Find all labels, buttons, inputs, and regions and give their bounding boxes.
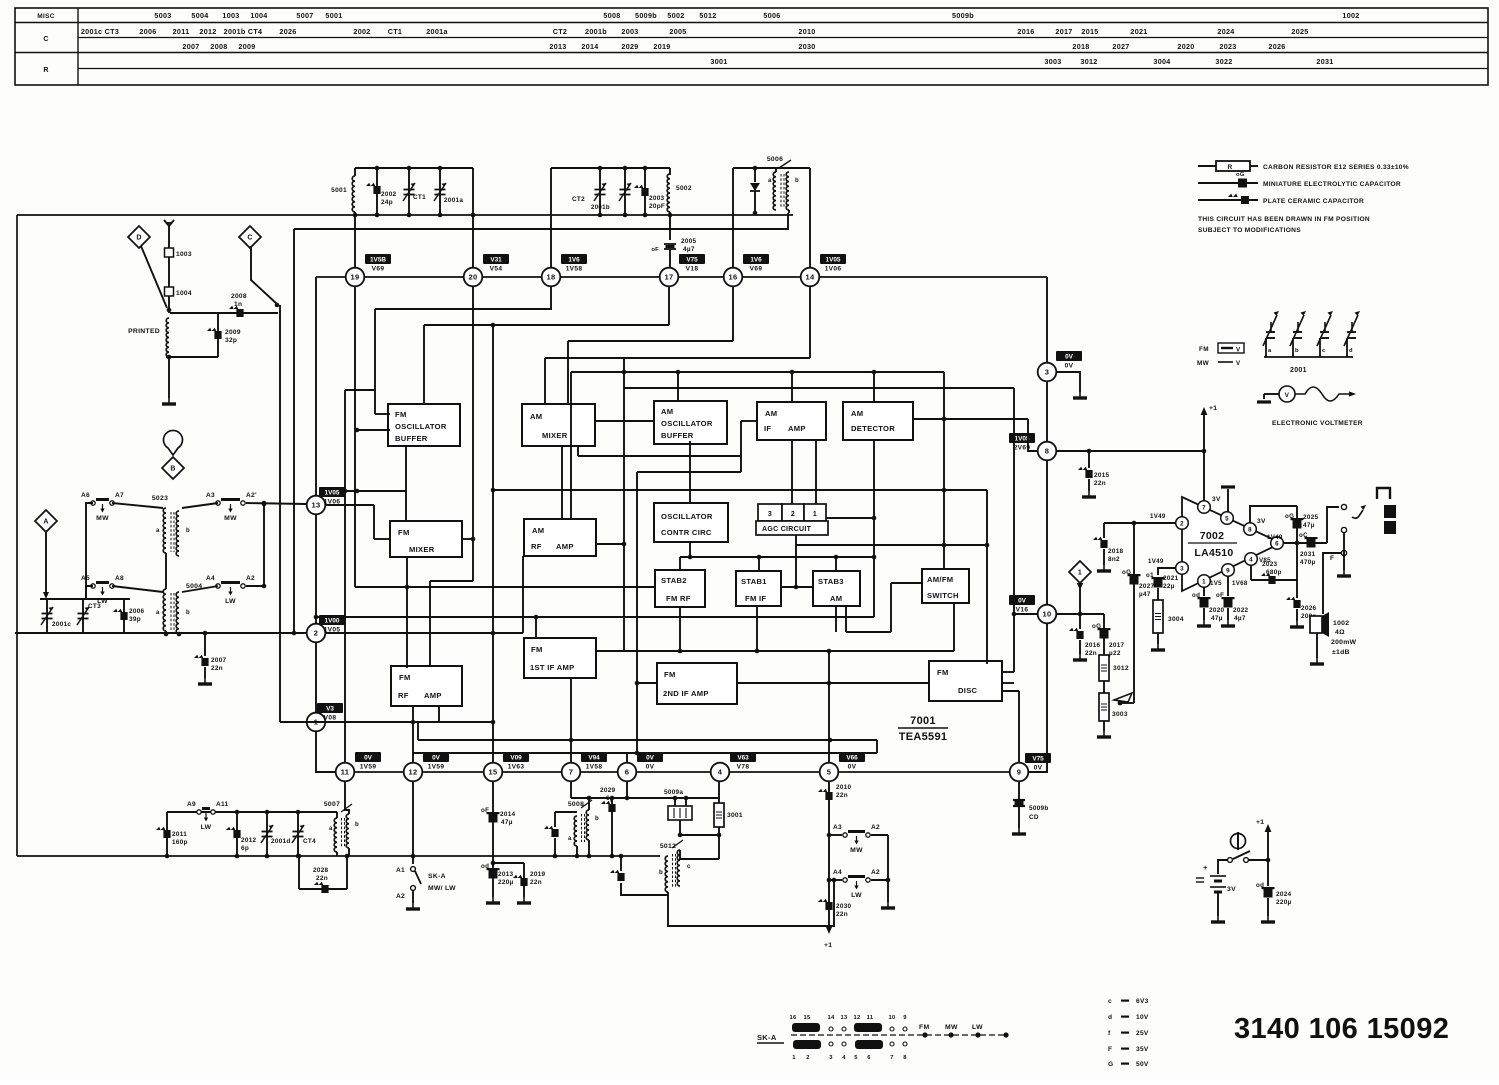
svg-text:MISC: MISC bbox=[37, 13, 54, 20]
svg-text:A3: A3 bbox=[833, 824, 842, 831]
wire bbox=[679, 834, 719, 836]
label 2012 value bbox=[241, 845, 249, 852]
capacitor 2011 bbox=[156, 827, 171, 838]
svg-text:16: 16 bbox=[729, 273, 738, 282]
electronic voltmeter symbol bbox=[1257, 386, 1356, 402]
svg-text:C: C bbox=[43, 36, 48, 43]
svg-text:3: 3 bbox=[1045, 368, 1049, 377]
wire bbox=[677, 372, 679, 401]
svg-text:2016: 2016 bbox=[1085, 642, 1101, 649]
switch A3-A2 MW bbox=[206, 492, 257, 522]
svg-text:2021: 2021 bbox=[1163, 575, 1179, 582]
junction bbox=[942, 543, 947, 548]
ceramic filter 5009b bbox=[1013, 800, 1049, 821]
svg-text:D: D bbox=[136, 235, 141, 242]
junction bbox=[262, 501, 267, 506]
junction bbox=[794, 585, 799, 590]
junction bbox=[598, 213, 603, 218]
wire top pin bus bbox=[316, 276, 1047, 278]
svg-text:2013: 2013 bbox=[498, 871, 514, 878]
svg-text:160p: 160p bbox=[172, 839, 188, 846]
junction bbox=[668, 213, 673, 218]
svg-text:2001: 2001 bbox=[1290, 367, 1307, 374]
wire 3012 to 3003 bbox=[1103, 681, 1105, 693]
svg-text:1ST IF AMP: 1ST IF AMP bbox=[530, 663, 575, 672]
svg-text:ELECTRONIC VOLTMETER: ELECTRONIC VOLTMETER bbox=[1272, 420, 1363, 427]
pin 14 bbox=[801, 268, 820, 287]
junction bbox=[491, 323, 496, 328]
wire bbox=[578, 455, 741, 457]
wire A2 to pin13 bbox=[246, 503, 306, 504]
label 3V pin8 bbox=[1257, 518, 1266, 525]
svg-text:2029: 2029 bbox=[621, 42, 638, 51]
svg-text:2023: 2023 bbox=[1219, 42, 1236, 51]
svg-text:R: R bbox=[43, 67, 48, 74]
svg-text:MW: MW bbox=[96, 515, 109, 522]
svg-text:+1: +1 bbox=[824, 942, 832, 949]
ground bbox=[1261, 916, 1275, 922]
svg-text:2025: 2025 bbox=[1291, 27, 1308, 36]
junction bbox=[610, 854, 615, 859]
capacitor 5012 left bbox=[610, 870, 625, 881]
junction bbox=[345, 854, 350, 859]
junction bbox=[755, 649, 760, 654]
svg-text:2011: 2011 bbox=[173, 27, 190, 36]
svg-text:17: 17 bbox=[665, 273, 674, 282]
block AGC circuit bbox=[756, 504, 828, 535]
capacitor 2022 bbox=[1216, 592, 1235, 608]
tuning gang 2001 bbox=[1263, 311, 1360, 374]
ground bbox=[1082, 491, 1096, 497]
junction bbox=[471, 213, 476, 218]
junction bbox=[235, 810, 240, 815]
svg-text:2019: 2019 bbox=[530, 871, 546, 878]
svg-text:2025: 2025 bbox=[1303, 514, 1319, 521]
junction bbox=[610, 796, 615, 801]
wire 2017 leg bbox=[1103, 614, 1105, 655]
junction bbox=[942, 488, 947, 493]
svg-text:20: 20 bbox=[469, 273, 478, 282]
junction bbox=[684, 796, 689, 801]
wire bbox=[1013, 388, 1015, 672]
label 2011 bbox=[172, 831, 187, 838]
label 2017 value bbox=[1109, 650, 1121, 657]
svg-text:0V: 0V bbox=[848, 764, 857, 771]
wire 5009a bottom bbox=[679, 820, 681, 835]
svg-text:oG: oG bbox=[1122, 569, 1131, 576]
svg-text:1V59: 1V59 bbox=[428, 764, 445, 771]
legend text electrolytic bbox=[1263, 181, 1401, 188]
svg-text:13: 13 bbox=[840, 1015, 848, 1021]
svg-text:CT1: CT1 bbox=[413, 194, 426, 201]
wire bbox=[835, 606, 837, 632]
junction bbox=[265, 810, 270, 815]
wire 2018 gnd bbox=[1103, 549, 1105, 565]
junction bbox=[553, 854, 558, 859]
svg-text:RF: RF bbox=[398, 691, 409, 700]
block oscillator control circuit bbox=[654, 503, 728, 542]
wire 2019 branch bbox=[493, 862, 524, 864]
svg-text:14: 14 bbox=[806, 273, 815, 282]
label 2013 bbox=[498, 871, 514, 878]
wire column x280 node C net bbox=[279, 305, 281, 722]
label pin12 voltages bbox=[423, 752, 449, 771]
svg-text:od: od bbox=[1192, 592, 1200, 599]
capacitor small ceramic bbox=[544, 826, 559, 837]
junction bbox=[262, 584, 267, 589]
label pin15 voltages bbox=[503, 752, 529, 771]
svg-text:SUBJECT TO MODIFICATIONS: SUBJECT TO MODIFICATIONS bbox=[1198, 227, 1301, 234]
svg-text:A8: A8 bbox=[115, 575, 124, 582]
wire pin5 down bbox=[828, 781, 830, 925]
svg-text:2: 2 bbox=[1180, 520, 1184, 527]
wire bbox=[876, 740, 878, 753]
svg-text:2008: 2008 bbox=[231, 293, 247, 300]
svg-text:1002: 1002 bbox=[1342, 11, 1359, 20]
wire feedback bottom bbox=[1251, 579, 1297, 581]
junction bbox=[827, 681, 832, 686]
wire CT4 leg bbox=[297, 812, 299, 856]
label 2001d bbox=[271, 838, 291, 845]
wire 2015 gnd bbox=[1088, 479, 1090, 491]
switch A5-A8 LW bbox=[81, 575, 124, 605]
wire 5012 c to 3001 bbox=[680, 850, 719, 859]
wire CT2 leg bbox=[599, 168, 601, 215]
svg-text:AMP: AMP bbox=[788, 424, 806, 433]
junction bbox=[407, 213, 412, 218]
supply arrow +1 battery bbox=[1256, 819, 1271, 860]
svg-text:AGC CIRCUIT: AGC CIRCUIT bbox=[762, 526, 812, 533]
svg-text:2005: 2005 bbox=[681, 238, 697, 245]
svg-text:15: 15 bbox=[489, 768, 498, 777]
junction bbox=[587, 796, 592, 801]
wire 2020 gnd bbox=[1203, 608, 1205, 620]
svg-text:V3: V3 bbox=[326, 706, 334, 713]
junction bbox=[411, 720, 416, 725]
svg-text:AM: AM bbox=[851, 409, 863, 418]
label pin13 voltages bbox=[319, 487, 345, 506]
junction bbox=[688, 555, 693, 560]
label 2012 bbox=[241, 837, 257, 844]
capacitor CT1 (trimmer) bbox=[403, 183, 415, 201]
wire 2001d leg bbox=[266, 812, 268, 856]
svg-text:A9: A9 bbox=[187, 801, 196, 808]
label 2023 bbox=[1262, 561, 1278, 568]
capacitor CT3 (trimmer) bbox=[77, 607, 89, 625]
pin 6 of U7002 bbox=[1271, 537, 1284, 550]
label pin11 voltages bbox=[355, 752, 381, 771]
label 2001a bbox=[444, 197, 463, 204]
wire to pin14 bbox=[809, 168, 811, 268]
svg-text:STAB1: STAB1 bbox=[741, 577, 767, 586]
svg-text:A: A bbox=[43, 519, 48, 526]
svg-text:5009a: 5009a bbox=[664, 789, 683, 796]
wire pin8 supply bbox=[1056, 450, 1203, 452]
svg-text:a: a bbox=[768, 178, 772, 184]
block FM disc bbox=[929, 661, 1002, 701]
wire bbox=[344, 390, 346, 763]
pin 1 of U7002 bbox=[1198, 575, 1211, 588]
svg-text:V66: V66 bbox=[846, 755, 858, 762]
junction bbox=[676, 370, 681, 375]
pin 17 bbox=[660, 268, 679, 287]
svg-text:47µ: 47µ bbox=[1211, 615, 1223, 622]
svg-text:A4: A4 bbox=[206, 575, 215, 582]
wire bbox=[740, 421, 742, 472]
svg-text:1V6: 1V6 bbox=[568, 257, 580, 264]
junction bbox=[262, 502, 267, 507]
ground bbox=[1197, 620, 1211, 626]
resistor 3001 bbox=[714, 803, 724, 827]
wire left border bbox=[16, 215, 18, 856]
junction bbox=[622, 542, 627, 547]
svg-text:b: b bbox=[1295, 348, 1299, 354]
svg-text:7: 7 bbox=[569, 768, 573, 777]
capacitor 2025 bbox=[1285, 513, 1304, 529]
label 2018 bbox=[1108, 548, 1124, 555]
svg-text:22n: 22n bbox=[530, 879, 542, 886]
wire 5002 to 2005 bbox=[669, 212, 671, 240]
capacitor CT4 (trimmer) bbox=[292, 825, 304, 843]
wire FM disc right bbox=[1002, 682, 1014, 684]
block AM mixer bbox=[522, 404, 595, 446]
ground bbox=[198, 678, 212, 684]
capacitor 2005 bbox=[651, 244, 676, 253]
svg-text:FM: FM bbox=[1199, 346, 1209, 353]
wire bbox=[636, 472, 638, 753]
svg-text:V: V bbox=[1236, 347, 1241, 354]
svg-text:FM: FM bbox=[398, 528, 410, 537]
label 2017 bbox=[1109, 642, 1125, 649]
svg-text:2030: 2030 bbox=[798, 42, 815, 51]
label electronic voltmeter bbox=[1272, 420, 1363, 427]
svg-text:FM: FM bbox=[395, 410, 407, 419]
wire bbox=[472, 287, 474, 581]
svg-text:DETECTOR: DETECTOR bbox=[851, 424, 895, 433]
capacitor 2029 bbox=[601, 801, 616, 812]
svg-text:CARBON RESISTOR E12 SERIES 0.3: CARBON RESISTOR E12 SERIES 0.33±10% bbox=[1263, 164, 1409, 171]
svg-text:4: 4 bbox=[718, 768, 723, 777]
svg-text:d: d bbox=[1349, 348, 1353, 354]
svg-text:6p: 6p bbox=[606, 795, 614, 802]
svg-text:1V06: 1V06 bbox=[825, 266, 842, 273]
junction bbox=[1295, 541, 1300, 546]
label 2019 bbox=[530, 871, 546, 878]
block STAB1 FM IF bbox=[736, 571, 781, 606]
svg-text:3004: 3004 bbox=[1168, 616, 1184, 623]
wire bbox=[943, 372, 945, 569]
pin 16 bbox=[724, 268, 743, 287]
junction bbox=[491, 488, 496, 493]
label 2010 bbox=[836, 784, 852, 791]
wire pin9 down bbox=[1018, 781, 1020, 828]
ground bbox=[1290, 621, 1304, 627]
junction bbox=[1012, 612, 1017, 617]
svg-text:1004: 1004 bbox=[176, 290, 192, 297]
svg-text:V09: V09 bbox=[510, 755, 522, 762]
svg-text:2001d: 2001d bbox=[271, 838, 291, 845]
junction bbox=[643, 166, 648, 171]
svg-text:2026: 2026 bbox=[1301, 605, 1317, 612]
node B bbox=[162, 457, 184, 479]
svg-text:4: 4 bbox=[1249, 556, 1253, 563]
svg-text:2003: 2003 bbox=[649, 195, 665, 202]
wire bbox=[795, 535, 797, 587]
label CT4 bbox=[303, 838, 316, 845]
transformer 5008 bbox=[568, 800, 599, 846]
wire bbox=[835, 557, 837, 571]
svg-text:9: 9 bbox=[1017, 768, 1021, 777]
svg-text:470µ: 470µ bbox=[1300, 559, 1316, 566]
table row labels bbox=[37, 13, 54, 74]
svg-text:1V05: 1V05 bbox=[325, 490, 340, 497]
label 2029 bbox=[600, 787, 616, 794]
headphone symbol bbox=[1377, 488, 1390, 499]
pin 10 bbox=[1038, 605, 1057, 624]
svg-text:o1: o1 bbox=[1146, 572, 1154, 579]
junction bbox=[471, 537, 476, 542]
svg-text:5012: 5012 bbox=[699, 11, 716, 20]
wire 2018 leg bbox=[1103, 523, 1105, 538]
pin 2 of U7002 bbox=[1176, 517, 1189, 530]
svg-text:2010: 2010 bbox=[798, 27, 815, 36]
wire bbox=[815, 440, 817, 504]
svg-text:200mW: 200mW bbox=[1331, 639, 1357, 646]
wire bbox=[571, 797, 719, 799]
svg-text:0V: 0V bbox=[364, 755, 373, 762]
junction bbox=[375, 166, 380, 171]
junction bbox=[203, 631, 208, 636]
svg-text:0V: 0V bbox=[432, 755, 441, 762]
wire bbox=[596, 650, 954, 652]
capacitor 2020 bbox=[1192, 592, 1211, 608]
ground bbox=[1097, 565, 1111, 571]
svg-text:5: 5 bbox=[827, 768, 831, 777]
svg-text:2020: 2020 bbox=[1209, 607, 1225, 614]
label 2030 bbox=[836, 903, 852, 910]
svg-text:24p: 24p bbox=[381, 199, 393, 206]
switch A6-A7 MW bbox=[81, 492, 124, 522]
wire to rail bbox=[554, 838, 556, 856]
wire FM tank top rail bbox=[355, 167, 473, 169]
label 1V49 out bbox=[1267, 534, 1283, 541]
label 2028 value bbox=[316, 875, 328, 882]
svg-text:CONTR CIRC: CONTR CIRC bbox=[661, 528, 712, 537]
wire bbox=[577, 446, 579, 456]
wire to pin16 bbox=[732, 168, 734, 268]
pin 8 of U7002 bbox=[1244, 523, 1257, 536]
wire bbox=[846, 631, 891, 633]
transformer 5012 bbox=[659, 840, 691, 892]
node C bbox=[239, 226, 261, 248]
wire 5006 b bottom bbox=[788, 210, 790, 213]
label 2015 value bbox=[1094, 480, 1106, 487]
svg-text:3V: 3V bbox=[1227, 886, 1236, 893]
svg-text:3012: 3012 bbox=[1113, 665, 1129, 672]
on-off switch contacts bbox=[1228, 851, 1250, 862]
capacitor 2019 bbox=[513, 875, 528, 886]
junction bbox=[167, 355, 172, 360]
label 2024 bbox=[1276, 891, 1292, 898]
wire bbox=[375, 308, 552, 310]
svg-text:PLATE CERAMIC CAPACITOR: PLATE CERAMIC CAPACITOR bbox=[1263, 198, 1364, 205]
svg-text:THIS CIRCUIT HAS BEEN DRAWN IN: THIS CIRCUIT HAS BEEN DRAWN IN FM POSITI… bbox=[1198, 216, 1370, 223]
label 2002 value bbox=[381, 199, 393, 206]
wire bbox=[550, 287, 552, 309]
wire bbox=[756, 606, 758, 651]
junction bbox=[790, 370, 795, 375]
svg-text:IF: IF bbox=[764, 424, 771, 433]
wire bbox=[809, 287, 811, 358]
wire to jack bbox=[1327, 507, 1339, 543]
label 2006 bbox=[129, 608, 145, 615]
svg-text:CD: CD bbox=[1029, 814, 1039, 821]
label 2023 value bbox=[1266, 569, 1282, 576]
ground bbox=[1221, 620, 1235, 626]
svg-text:4µ7: 4µ7 bbox=[1234, 615, 1246, 622]
svg-text:5006: 5006 bbox=[763, 11, 780, 20]
ground bbox=[1337, 570, 1351, 576]
junction bbox=[265, 854, 270, 859]
power switch icon bbox=[1231, 832, 1246, 850]
svg-text:1: 1 bbox=[1078, 570, 1082, 577]
svg-text:1: 1 bbox=[1202, 578, 1206, 585]
wire 5008 b top bbox=[588, 798, 590, 810]
junction bbox=[407, 166, 412, 171]
ground bbox=[162, 398, 176, 404]
wire osc contr bottom bbox=[689, 542, 691, 557]
wire pin2 bus bbox=[15, 632, 307, 634]
svg-text:b: b bbox=[186, 610, 190, 616]
wire pin3 to pin8 bbox=[1046, 381, 1048, 442]
svg-text:3V: 3V bbox=[1257, 518, 1266, 525]
svg-text:18: 18 bbox=[547, 273, 556, 282]
svg-text:MW: MW bbox=[945, 1024, 958, 1031]
pin 9 bbox=[1010, 763, 1029, 782]
wire to x888 bbox=[871, 834, 888, 836]
svg-text:2002: 2002 bbox=[381, 191, 397, 198]
pin 20 bbox=[464, 268, 483, 287]
wire bbox=[796, 544, 987, 546]
capacitor 2028 loop bbox=[299, 856, 347, 889]
label 3001 bbox=[727, 812, 743, 819]
svg-text:2020: 2020 bbox=[1177, 42, 1194, 51]
wire pin10 right bbox=[1056, 613, 1104, 615]
svg-text:2024: 2024 bbox=[1276, 891, 1292, 898]
svg-text:32p: 32p bbox=[225, 337, 237, 344]
wire 2009 branch bbox=[217, 313, 219, 357]
ground bbox=[1073, 392, 1087, 398]
svg-text:50V: 50V bbox=[1136, 1061, 1149, 1068]
svg-text:2021: 2021 bbox=[1130, 27, 1147, 36]
junction bbox=[678, 833, 683, 838]
label pin18 voltages bbox=[561, 254, 587, 273]
document number 3140 106 15092 bbox=[1234, 1013, 1449, 1045]
label 2009 bbox=[225, 329, 241, 336]
svg-text:b: b bbox=[186, 528, 190, 534]
svg-text:10V: 10V bbox=[1136, 1014, 1149, 1021]
svg-text:2026: 2026 bbox=[1268, 42, 1285, 51]
wire bbox=[374, 538, 390, 540]
svg-text:2029: 2029 bbox=[600, 787, 616, 794]
wire 2015 leg bbox=[1088, 451, 1090, 468]
wire bbox=[828, 651, 830, 763]
wire bbox=[873, 372, 875, 402]
op-amp U7002 LA4510 bbox=[1182, 497, 1281, 591]
ground bbox=[517, 897, 531, 903]
transformer 5023 bbox=[152, 495, 190, 556]
wire to 2024 bbox=[1267, 860, 1269, 886]
